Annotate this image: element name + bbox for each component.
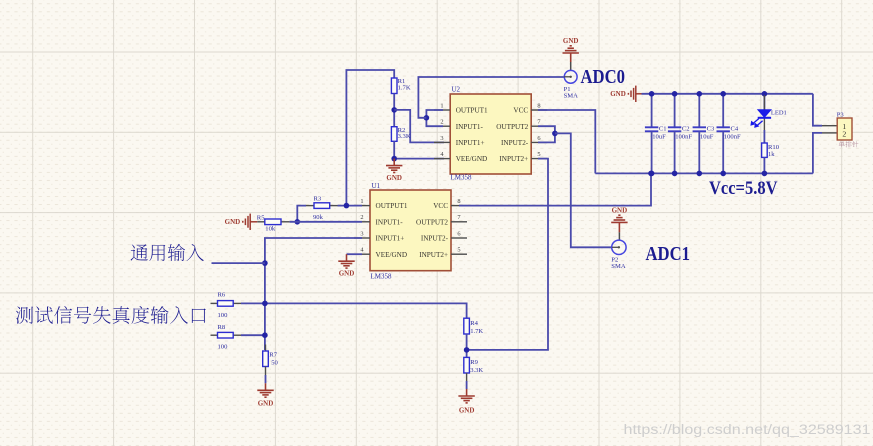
svg-text:GND: GND bbox=[612, 207, 628, 215]
svg-text:GND: GND bbox=[563, 37, 579, 45]
svg-text:INPUT1+: INPUT1+ bbox=[456, 139, 485, 147]
wire OUT1-U1 net vertical from U1 pin1 up and over to R1 top bbox=[346, 70, 394, 206]
resistor R3 bbox=[314, 203, 330, 209]
svg-text:C1: C1 bbox=[659, 125, 667, 132]
ground below R7 bbox=[257, 383, 273, 397]
svg-text:50: 50 bbox=[271, 359, 278, 366]
P3 pin numbers bbox=[842, 122, 846, 139]
svg-text:R7: R7 bbox=[269, 351, 277, 358]
svg-text:8: 8 bbox=[537, 102, 540, 109]
op-amp U2 LM358 body bbox=[450, 94, 531, 174]
resistor R9 bbox=[464, 357, 470, 373]
svg-text:3: 3 bbox=[360, 230, 363, 237]
svg-text:C4: C4 bbox=[731, 125, 739, 132]
svg-text:10uF: 10uF bbox=[652, 134, 666, 141]
R6 pin stubs bbox=[211, 302, 242, 304]
svg-text:R3: R3 bbox=[314, 195, 322, 202]
svg-text:3.3K: 3.3K bbox=[398, 133, 411, 140]
svg-text:R4: R4 bbox=[470, 320, 478, 327]
svg-text:OUTPUT1: OUTPUT1 bbox=[456, 107, 488, 115]
svg-text:INPUT2+: INPUT2+ bbox=[419, 251, 448, 259]
LED LED1 bbox=[750, 95, 771, 130]
ground below R2 bbox=[386, 159, 402, 173]
wire P3 pin2 to VCC rail bbox=[813, 133, 822, 174]
svg-text:ADC0: ADC0 bbox=[581, 66, 626, 88]
wire R2 bottom to U2 VEE/GND bbox=[394, 141, 444, 158]
svg-text:10uF: 10uF bbox=[700, 134, 714, 141]
svg-text:2: 2 bbox=[440, 119, 443, 126]
svg-text:1k: 1k bbox=[768, 151, 775, 158]
svg-text:GND: GND bbox=[459, 407, 475, 415]
svg-text:U2: U2 bbox=[452, 86, 461, 94]
svg-text:1: 1 bbox=[440, 102, 443, 109]
resistor R8 bbox=[218, 332, 234, 338]
node R10 bottom rail bbox=[762, 171, 768, 177]
svg-text:OUTPUT2: OUTPUT2 bbox=[416, 218, 448, 226]
svg-text:R5: R5 bbox=[257, 214, 265, 221]
wire R7 to ground bbox=[265, 367, 267, 376]
svg-text:INPUT2+: INPUT2+ bbox=[499, 155, 528, 163]
U1 pin names bbox=[376, 202, 449, 259]
ground below U1 pin4 bbox=[338, 254, 354, 268]
wire R10 to bottom rail bbox=[763, 157, 765, 173]
svg-text:VCC: VCC bbox=[433, 202, 448, 210]
capacitor C2 bbox=[668, 94, 681, 174]
wire U1 pin3 to input node bbox=[265, 238, 362, 350]
svg-text:R6: R6 bbox=[218, 292, 226, 299]
wire U2 VCC pin8 to +rail bbox=[538, 110, 595, 173]
wire U2 pin7 to pin6 tie bbox=[538, 126, 555, 142]
node C2 top rail bbox=[672, 91, 678, 97]
svg-text:1.7K: 1.7K bbox=[470, 328, 483, 335]
U2 pin numbers bbox=[440, 102, 541, 158]
wire U2 output node to ADC0 bbox=[418, 77, 564, 118]
R8 pin stubs bbox=[211, 334, 242, 336]
svg-text:OUTPUT1: OUTPUT1 bbox=[376, 202, 408, 210]
svg-text:1.7K: 1.7K bbox=[398, 85, 411, 92]
U2 pin names bbox=[456, 107, 529, 164]
node C1 bottom rail bbox=[649, 171, 655, 177]
connector P3 header body bbox=[822, 118, 852, 140]
svg-text:https://blog.csdn.net/qq_32589: https://blog.csdn.net/qq_32589131 bbox=[624, 422, 871, 437]
wire U1 pin4 to ground bbox=[347, 253, 363, 255]
node C3 top rail bbox=[697, 91, 703, 97]
svg-text:SMA: SMA bbox=[611, 263, 626, 270]
resistor R2 bbox=[391, 127, 397, 142]
wire U2 out2 to ADC1 bbox=[555, 133, 612, 247]
node R8 junction bbox=[262, 332, 268, 338]
svg-text:GND: GND bbox=[339, 269, 355, 277]
svg-text:10k: 10k bbox=[265, 226, 276, 233]
node C4 top rail bbox=[720, 91, 726, 97]
R7 top pin stub bbox=[265, 345, 267, 352]
wire general input bbox=[212, 262, 265, 264]
svg-text:INPUT1-: INPUT1- bbox=[456, 123, 484, 131]
svg-text:GND: GND bbox=[258, 399, 274, 407]
wire R5 to U1 pin2 bbox=[290, 221, 362, 223]
node R1-R2 junction bbox=[391, 107, 397, 113]
svg-text:INPUT1+: INPUT1+ bbox=[376, 235, 405, 243]
wire feedback node to U2 pin2 bbox=[426, 118, 443, 126]
node C2 bottom rail bbox=[672, 171, 678, 177]
wire R3 left to inverting node bbox=[297, 206, 306, 222]
svg-text:INPUT2-: INPUT2- bbox=[501, 139, 529, 147]
wire U2 pin5 down to R4-R9 node bbox=[467, 159, 548, 350]
wire LED1 to R10 bbox=[763, 130, 765, 143]
svg-text:100: 100 bbox=[218, 343, 229, 350]
node R4-R9 junction bbox=[464, 347, 470, 353]
node U2 out2 junction bbox=[552, 131, 558, 137]
svg-text:5: 5 bbox=[537, 151, 540, 158]
U1 pin numbers bbox=[360, 198, 461, 254]
label below P3 single-row header bbox=[839, 141, 845, 147]
node LED1 top rail bbox=[762, 91, 768, 97]
resistor R5 bbox=[265, 219, 281, 225]
connector P2 SMA circle bbox=[612, 240, 626, 254]
ground below R9 bbox=[458, 389, 474, 403]
svg-text:8: 8 bbox=[457, 198, 460, 205]
wire R8 right to node bbox=[241, 334, 265, 336]
svg-text:5: 5 bbox=[457, 247, 460, 254]
U2 pin stubs right bbox=[531, 110, 547, 159]
capacitor C4 bbox=[717, 94, 730, 174]
svg-text:100nF: 100nF bbox=[675, 134, 692, 141]
node U1 pin1 junction bbox=[344, 203, 350, 209]
wire U2 pin1 to feedback node bbox=[426, 110, 443, 118]
svg-text:1: 1 bbox=[360, 198, 363, 205]
svg-text:90k: 90k bbox=[313, 214, 324, 221]
svg-text:INPUT2-: INPUT2- bbox=[421, 235, 449, 243]
svg-text:6: 6 bbox=[537, 135, 540, 142]
svg-text:VCC: VCC bbox=[513, 107, 528, 115]
label general input (Chinese) bbox=[131, 244, 148, 260]
svg-text:2: 2 bbox=[842, 130, 846, 139]
svg-text:SMA: SMA bbox=[564, 93, 579, 100]
resistor R1 bbox=[391, 78, 397, 94]
svg-text:2: 2 bbox=[360, 214, 363, 221]
svg-text:U1: U1 bbox=[372, 182, 381, 190]
capacitor C1 bbox=[645, 94, 658, 174]
resistor R6 bbox=[218, 301, 234, 307]
svg-text:VEE/GND: VEE/GND bbox=[456, 155, 488, 163]
svg-text:OUTPUT2: OUTPUT2 bbox=[496, 123, 528, 131]
wire node to U2 INPUT1+ bbox=[394, 110, 444, 142]
svg-text:R9: R9 bbox=[470, 359, 478, 366]
svg-text:R8: R8 bbox=[218, 324, 226, 331]
wire R6 right to R4 line bbox=[241, 303, 467, 318]
U1 pin stubs right bbox=[451, 206, 467, 255]
R5 pin stubs bbox=[257, 221, 289, 223]
node U2 output-feedback junction bbox=[424, 115, 430, 121]
wire top rail to LED1 bbox=[763, 94, 765, 110]
node VCC riser on rail bbox=[648, 171, 654, 177]
svg-text:GND: GND bbox=[386, 174, 402, 182]
node C3 bottom rail bbox=[697, 171, 703, 177]
wire U1 VCC pin8 to rail riser bbox=[459, 173, 651, 205]
svg-text:3: 3 bbox=[440, 135, 443, 142]
node C1 top rail bbox=[649, 91, 655, 97]
R3 pin stubs bbox=[306, 205, 338, 207]
U2 pin stubs left bbox=[434, 110, 450, 159]
wire R9 to ground bbox=[466, 373, 468, 381]
svg-text:P3: P3 bbox=[837, 111, 845, 118]
svg-text:VEE/GND: VEE/GND bbox=[376, 251, 408, 259]
svg-text:100: 100 bbox=[218, 312, 229, 319]
svg-text:C3: C3 bbox=[707, 125, 715, 132]
wire VCC bottom rail bbox=[595, 172, 813, 174]
svg-text:3.3K: 3.3K bbox=[470, 367, 483, 374]
wire R3 right to U1 pin1 bbox=[338, 205, 363, 207]
svg-text:GND: GND bbox=[610, 90, 626, 98]
svg-text:100nF: 100nF bbox=[724, 134, 741, 141]
wire GND top rail bbox=[642, 93, 813, 95]
svg-text:6: 6 bbox=[457, 230, 460, 237]
node R6 junction bbox=[262, 301, 268, 307]
node input-wire junction bbox=[262, 260, 268, 266]
resistor R7 bbox=[263, 351, 269, 367]
svg-text:ADC1: ADC1 bbox=[646, 243, 691, 265]
svg-text:C2: C2 bbox=[682, 125, 690, 132]
resistor R4 bbox=[464, 318, 470, 334]
node inverting input junction bbox=[295, 219, 301, 225]
wire R1 bottom to node bbox=[393, 94, 395, 127]
svg-text:LM358: LM358 bbox=[451, 174, 473, 182]
svg-text:LED1: LED1 bbox=[771, 109, 787, 116]
wire P3 pin1 to GND rail bbox=[813, 94, 822, 126]
capacitor C3 bbox=[693, 94, 706, 174]
svg-text:LM358: LM358 bbox=[371, 273, 393, 281]
U1 pin stubs left bbox=[354, 206, 370, 255]
node R2-GND junction bbox=[391, 156, 397, 162]
svg-text:GND: GND bbox=[225, 218, 241, 226]
connector P1 SMA circle bbox=[564, 70, 577, 83]
svg-text:Vcc=5.8V: Vcc=5.8V bbox=[709, 179, 778, 199]
wire R4 to node bbox=[466, 334, 468, 357]
svg-text:INPUT1-: INPUT1- bbox=[376, 218, 404, 226]
resistor R10 bbox=[762, 143, 768, 157]
node C4 bottom rail bbox=[720, 171, 726, 177]
op-amp U1 LM358 body bbox=[370, 190, 451, 271]
label test signal input (Chinese) bbox=[16, 306, 33, 323]
